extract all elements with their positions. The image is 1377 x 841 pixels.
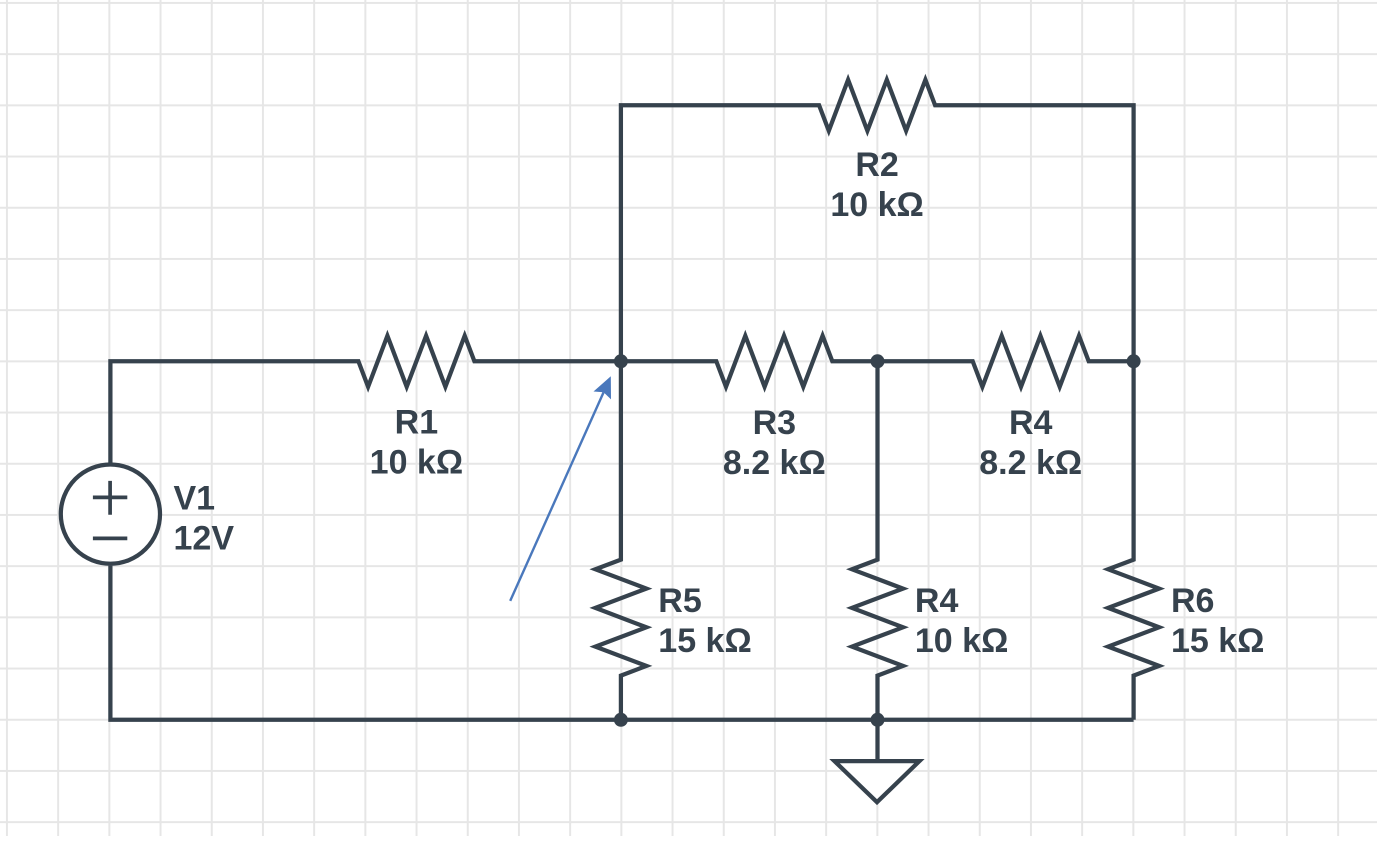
svg-text:V1: V1	[174, 479, 216, 517]
svg-text:R3: R3	[753, 404, 796, 442]
svg-text:15 kΩ: 15 kΩ	[1171, 622, 1264, 660]
svg-text:10 kΩ: 10 kΩ	[370, 444, 463, 482]
svg-text:8.2 kΩ: 8.2 kΩ	[979, 444, 1082, 482]
svg-text:R4: R4	[1009, 404, 1053, 442]
svg-text:10 kΩ: 10 kΩ	[830, 186, 923, 224]
svg-text:8.2 kΩ: 8.2 kΩ	[723, 444, 826, 482]
svg-text:R4: R4	[915, 582, 959, 620]
svg-text:R6: R6	[1171, 582, 1214, 620]
svg-text:15 kΩ: 15 kΩ	[658, 622, 751, 660]
svg-text:12V: 12V	[174, 519, 235, 557]
svg-text:R5: R5	[658, 582, 701, 620]
svg-text:10 kΩ: 10 kΩ	[915, 622, 1008, 660]
svg-text:R1: R1	[395, 404, 438, 442]
svg-text:R2: R2	[855, 146, 898, 184]
